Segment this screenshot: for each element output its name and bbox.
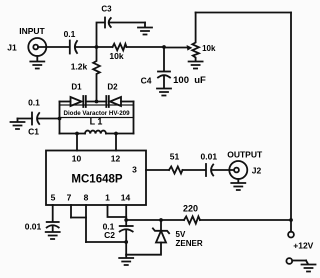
resistor 220: [184, 216, 200, 223]
wire zener bottom to ground node: [126, 243, 161, 255]
wire node B to pot wiper arrow: [164, 47, 188, 49]
svg-text:3: 3: [132, 165, 137, 175]
ground (power return): [302, 261, 316, 272]
svg-text:L 1: L 1: [90, 117, 103, 127]
wire 220 to +12V rail: [200, 219, 291, 221]
node C1/tank junction: [58, 117, 62, 121]
svg-text:5V: 5V: [176, 230, 186, 239]
varactor D1: [71, 96, 86, 107]
potentiometer 10k: [192, 13, 199, 62]
svg-text:0.01: 0.01: [25, 222, 42, 232]
svg-text:J2: J2: [252, 166, 262, 176]
wire C2 to ground node: [125, 231, 127, 255]
svg-text:INPUT: INPUT: [19, 26, 45, 36]
wire 51 to output cap: [183, 169, 206, 171]
wire C1 to tank left: [38, 118, 60, 120]
node pin12 tap: [114, 132, 118, 136]
ground (below J2): [231, 179, 245, 190]
wire tank to pin 12: [115, 134, 117, 151]
wiper arrowhead: [187, 45, 193, 51]
node A (junction input/C3/1.2k/10k): [95, 45, 99, 49]
resistor 10k (series): [97, 44, 165, 51]
wire C3 to ground: [110, 22, 145, 24]
wire pin 8 down: [85, 205, 87, 242]
connector J2 (OUTPUT BNC): [229, 161, 247, 179]
ground (below pot): [189, 62, 203, 69]
svg-text:C4: C4: [141, 76, 152, 86]
wire C4 drop: [163, 47, 165, 71]
capacitor C4 100 uF: [158, 72, 170, 78]
node pin8/C2 junction: [124, 240, 128, 244]
varactor module box HV-209: [60, 105, 134, 118]
ground (left of C1): [11, 119, 25, 130]
capacitor C3: [105, 18, 111, 28]
resistor 51: [169, 167, 183, 174]
wire pin 14 down: [125, 205, 127, 226]
capacitor C1: [32, 113, 39, 125]
node center varactor (junction 1.2k/D1/D2): [95, 100, 99, 104]
wire D1 to center node: [86, 101, 107, 103]
capacitor 0.01 (output): [206, 164, 213, 176]
ground (below C4): [157, 77, 171, 96]
capacitor 0.1 (input coupling): [70, 41, 77, 54]
wire ground post to ground: [292, 260, 306, 262]
wire tank top-right: [121, 101, 134, 103]
terminal +12V: [288, 232, 294, 238]
wire pin 5 down: [52, 205, 54, 222]
wire +12V top rail: [196, 12, 291, 14]
node pin14/Vcc junction: [124, 218, 128, 222]
node zener top junction: [159, 218, 163, 222]
wire pin 1 down: [108, 205, 127, 217]
node +12V rail corner: [289, 218, 293, 222]
wire Vcc rail (pin14 node to 220 resistor): [126, 219, 184, 221]
svg-text:+12V: +12V: [293, 241, 313, 251]
wire pin 8 to ground node: [86, 241, 126, 243]
wire +12V right rail: [290, 13, 292, 221]
svg-text:D2: D2: [107, 83, 118, 92]
IC U1 MC1648P body: [46, 151, 146, 206]
svg-text:8: 8: [84, 193, 89, 203]
wire +12V terminal stub: [290, 220, 292, 232]
svg-text:7: 7: [67, 193, 72, 203]
connector J1 (INPUT BNC): [28, 38, 46, 56]
capacitor C2: [120, 226, 133, 232]
capacitor 0.01 (pin 5 bypass): [47, 222, 59, 228]
inductor L1: [85, 131, 106, 134]
svg-text:0.1: 0.1: [64, 29, 76, 39]
varactor D2: [106, 96, 121, 107]
ground (below pin5 cap): [46, 227, 60, 240]
svg-text:220: 220: [183, 204, 198, 214]
svg-text:14: 14: [121, 193, 131, 203]
ground (below J1): [30, 56, 44, 69]
wire tank bottom-left: [60, 133, 86, 135]
svg-text:D1: D1: [71, 83, 82, 92]
wire tank left side: [59, 102, 61, 134]
wire tank top-left: [60, 101, 71, 103]
svg-text:10: 10: [72, 154, 82, 164]
svg-text:MC1648P: MC1648P: [71, 174, 122, 186]
node B (junction 10k/C4/pot wiper): [162, 45, 166, 49]
wire zener top: [160, 220, 162, 231]
svg-text:10k: 10k: [202, 44, 216, 53]
wire output cap to J2: [212, 169, 234, 171]
svg-text:1: 1: [105, 193, 110, 203]
svg-text:1.2k: 1.2k: [71, 62, 88, 72]
svg-text:OUTPUT: OUTPUT: [227, 150, 263, 160]
wire tank right side: [133, 102, 135, 134]
svg-text:ZENER: ZENER: [176, 239, 203, 248]
terminal ground post: [286, 258, 292, 264]
wire pin 3 to output resistor: [146, 169, 169, 171]
ground (right of C3): [138, 23, 152, 35]
svg-text:51: 51: [170, 152, 180, 162]
svg-text:J1: J1: [7, 43, 17, 53]
svg-text:5: 5: [51, 193, 56, 203]
wire J1 to input cap: [38, 46, 69, 48]
wire tank to pin 10: [76, 134, 78, 151]
wire input cap to node A: [76, 46, 97, 48]
resistor 1.2k: [93, 47, 100, 102]
diode zener 5V: [153, 228, 169, 242]
wire pin7-pin8 jumper: [71, 217, 86, 219]
svg-text:C3: C3: [101, 5, 112, 14]
wire tank bottom-right: [106, 133, 134, 135]
wire C1 to ground: [18, 118, 33, 120]
node pin10 tap: [75, 132, 79, 136]
svg-text:10k: 10k: [109, 51, 123, 61]
wire pin 7 down: [70, 205, 72, 218]
svg-text:C2: C2: [104, 230, 115, 240]
svg-text:12: 12: [111, 154, 121, 164]
wire node A up to C3: [97, 23, 105, 48]
svg-text:0.01: 0.01: [201, 152, 218, 162]
ground (main below C2): [119, 255, 133, 265]
svg-text:0.1: 0.1: [28, 98, 40, 108]
svg-text:C1: C1: [28, 127, 39, 137]
svg-text:100 uF: 100 uF: [173, 75, 206, 86]
